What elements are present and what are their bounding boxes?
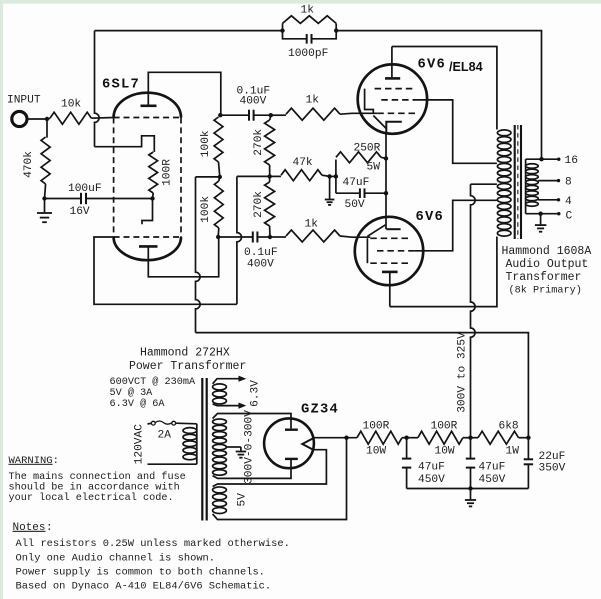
svg-text:47uF: 47uF bbox=[479, 461, 506, 473]
svg-text:100R: 100R bbox=[161, 159, 173, 186]
OPT primary winding bbox=[497, 130, 511, 236]
svg-text:10W: 10W bbox=[366, 445, 386, 457]
grid V1b (dashed) bbox=[114, 236, 181, 238]
svg-text:5W: 5W bbox=[367, 162, 381, 174]
terminal 4 bbox=[557, 198, 560, 201]
wire feedback top left bbox=[95, 30, 283, 32]
svg-text:Only one Audio channel is show: Only one Audio channel is shown. bbox=[16, 552, 216, 564]
input jack J1 bbox=[12, 111, 27, 126]
terminal C bbox=[557, 212, 560, 215]
wire B+ vertical (hops) bbox=[471, 184, 476, 438]
svg-text:6.3V @ 6A: 6.3V @ 6A bbox=[110, 398, 166, 410]
capacitor 0.1uF row2 bbox=[218, 236, 253, 238]
svg-text:(8k Primary): (8k Primary) bbox=[509, 285, 582, 297]
resistor 100R (cathode) bbox=[149, 152, 158, 193]
svg-text:1000pF: 1000pF bbox=[288, 48, 328, 60]
svg-text:400V: 400V bbox=[247, 258, 274, 270]
svg-text:16: 16 bbox=[565, 155, 578, 167]
OPT secondary winding bbox=[525, 159, 527, 214]
ground (47k node) bbox=[329, 176, 331, 198]
wire filter bottom rail bbox=[407, 488, 529, 490]
svg-text:5V: 5V bbox=[237, 493, 249, 507]
node row2 / 270k bbox=[268, 235, 272, 239]
wire divider bottom to V1b grid bbox=[94, 237, 237, 304]
grid rows bottom 6V6 (dashed) bbox=[370, 238, 414, 263]
svg-text:270k: 270k bbox=[253, 129, 265, 156]
wire HV bottom to anode 2 bbox=[213, 460, 291, 479]
node plate V1a / row1 bbox=[218, 113, 222, 117]
node filter 3 (screen B+) bbox=[526, 436, 530, 440]
resistor 6k8 1W bbox=[471, 437, 479, 439]
plate V1b bbox=[139, 245, 158, 248]
capacitor 1000pF bbox=[283, 31, 307, 39]
capacitor 47uF 50V bbox=[335, 176, 337, 193]
node filter 2 (B+) bbox=[468, 436, 472, 440]
grid rail bottom 6V6 bbox=[366, 238, 368, 263]
wire 16 ohm tap bbox=[526, 158, 559, 160]
tube GZ34 envelope bbox=[264, 418, 314, 468]
terminal 16 bbox=[557, 158, 560, 161]
svg-text:600VCT @ 230mA: 600VCT @ 230mA bbox=[110, 376, 196, 388]
svg-text:120VAC: 120VAC bbox=[133, 424, 145, 465]
tube 6V6 bottom envelope bbox=[355, 217, 423, 285]
svg-text:100k: 100k bbox=[200, 196, 212, 223]
svg-text:5V @ 3A: 5V @ 3A bbox=[110, 387, 154, 399]
wire B+ to OPT center tap bbox=[471, 183, 497, 185]
node 47uF / cathode line bbox=[384, 191, 388, 195]
svg-text:22uF: 22uF bbox=[539, 451, 566, 463]
wire 5V bottom to output node bbox=[213, 438, 347, 520]
plate bottom 6V6 bbox=[382, 271, 398, 274]
resistor 100k (plate load 2) bbox=[219, 177, 220, 181]
svg-text:2A: 2A bbox=[158, 430, 172, 442]
svg-text:1k: 1k bbox=[301, 5, 315, 17]
wire 6SL7 B+ feed horizontal bbox=[196, 333, 529, 438]
node C ground junction bbox=[538, 212, 542, 216]
svg-text:47k: 47k bbox=[293, 157, 313, 169]
svg-text:The mains connection and fuse: The mains connection and fuse bbox=[9, 471, 186, 483]
svg-text:WARNING: WARNING bbox=[9, 455, 53, 467]
svg-text:4: 4 bbox=[565, 196, 572, 208]
ground (input) bbox=[44, 199, 46, 213]
wire 6SL7 B+ feed vertical (hops) bbox=[196, 177, 201, 333]
grid rows top 6V6 (dashed) bbox=[375, 89, 419, 114]
resistor 100R second bbox=[407, 437, 418, 439]
svg-text:GZ34: GZ34 bbox=[301, 403, 339, 418]
wire HV center tap bbox=[227, 446, 241, 448]
svg-text:All resistors 0.25W unless mar: All resistors 0.25W unless marked otherw… bbox=[16, 538, 290, 550]
grid rail top 6V6 bbox=[365, 89, 374, 114]
resistor 250R 5W bbox=[335, 160, 337, 177]
plate top 6V6 bbox=[391, 47, 393, 78]
svg-text:50V: 50V bbox=[345, 199, 365, 211]
svg-text:400V: 400V bbox=[240, 95, 267, 107]
node input junction bbox=[45, 117, 49, 121]
wire plate top 6V6 to OPT bbox=[392, 47, 497, 130]
wire 47k junction to divider drop bbox=[237, 175, 270, 177]
wire 4 ohm tap bbox=[538, 199, 558, 201]
capacitor 47uF 450V second bbox=[470, 438, 472, 458]
green page border left bbox=[0, 0, 3, 599]
node 100k junction (B+ feed) bbox=[218, 175, 222, 179]
wire plate bottom 6V6 to OPT bbox=[390, 237, 497, 307]
svg-text:300V-0-300V: 300V-0-300V bbox=[244, 410, 256, 484]
suppressor tie top 6V6 bbox=[373, 116, 386, 129]
node fb left bbox=[280, 28, 284, 32]
resistor 47k bbox=[270, 175, 281, 177]
tube 6SL7 envelope bottom arc bbox=[114, 237, 181, 260]
grid V1a (dashed) bbox=[114, 117, 181, 119]
wire HV top to anode 1 bbox=[213, 414, 291, 429]
resistor 100R first bbox=[357, 431, 402, 444]
wire C tap bbox=[526, 213, 559, 215]
svg-text:1k: 1k bbox=[306, 95, 320, 107]
svg-text:470k: 470k bbox=[23, 151, 35, 178]
PT primary 120VAC winding bbox=[183, 428, 197, 460]
cathode V1a bbox=[95, 136, 155, 152]
PT HV winding 300-0-300 bbox=[213, 419, 227, 475]
wire 5V top to filament bbox=[213, 450, 327, 487]
anode 2 GZ34 bbox=[285, 458, 298, 460]
anode 1 GZ34 bbox=[290, 428, 292, 429]
wire feedback to 16ohm tap bbox=[336, 31, 541, 160]
ground (filter) bbox=[470, 489, 472, 500]
svg-text:8: 8 bbox=[565, 177, 572, 189]
capacitor 100uF bbox=[45, 198, 82, 200]
suppressor tie bottom 6V6 bbox=[367, 225, 385, 237]
wire screen top 6V6 to UL tap bbox=[419, 100, 497, 163]
node fb right bbox=[334, 28, 338, 32]
node 250R / cathode line bbox=[384, 156, 388, 160]
node output / 5V return bbox=[344, 436, 348, 440]
svg-text:C: C bbox=[566, 210, 573, 222]
svg-text:270k: 270k bbox=[253, 191, 265, 218]
tube 6SL7 dashed sides bbox=[114, 118, 181, 238]
wire plate V1b to row2 bbox=[148, 237, 218, 277]
svg-text:0.1uF: 0.1uF bbox=[244, 247, 278, 259]
svg-text:10k: 10k bbox=[61, 98, 81, 110]
node 470k/100uF junction bbox=[42, 196, 46, 200]
wire jack to input node bbox=[27, 118, 47, 120]
PT 6.3V winding bbox=[213, 384, 227, 404]
wire 6.3V top arrow bbox=[213, 379, 240, 384]
filament GZ34 bbox=[302, 438, 313, 450]
svg-text:300V to 325V: 300V to 325V bbox=[457, 332, 469, 413]
svg-text:450V: 450V bbox=[418, 474, 445, 486]
svg-text:350V: 350V bbox=[539, 462, 566, 474]
resistor 1k (grid stopper bottom 6V6) bbox=[270, 236, 286, 238]
cathode bottom 6V6 bbox=[386, 228, 400, 230]
svg-text:100uF: 100uF bbox=[68, 183, 102, 195]
node 100R/100uF junction bbox=[150, 196, 154, 200]
svg-text:Audio Output: Audio Output bbox=[506, 258, 589, 271]
svg-text:6SL7: 6SL7 bbox=[102, 78, 140, 93]
tube 6SL7 envelope top arc bbox=[114, 93, 181, 118]
wire screen bottom 6V6 to UL tap bbox=[414, 200, 497, 251]
wire 8 ohm tap bbox=[538, 180, 558, 182]
svg-text:Hammond 1608A: Hammond 1608A bbox=[502, 245, 592, 258]
plate V1a bbox=[141, 105, 157, 108]
svg-text:47uF: 47uF bbox=[343, 177, 370, 189]
wire shared cathode line bbox=[385, 134, 387, 230]
wire divider drop (hops row2) bbox=[237, 176, 242, 304]
node bottom rail ground bbox=[468, 486, 472, 490]
svg-text:should be in accordance with: should be in accordance with bbox=[9, 482, 180, 494]
svg-text:450V: 450V bbox=[479, 474, 506, 486]
fuse 2A bbox=[148, 422, 152, 425]
svg-text:Hammond 272HX: Hammond 272HX bbox=[140, 346, 230, 359]
ground (HV center tap) bbox=[240, 447, 242, 451]
terminal 8 bbox=[557, 179, 560, 182]
svg-text:100R: 100R bbox=[431, 420, 458, 432]
svg-text:Power Transformer: Power Transformer bbox=[129, 360, 246, 373]
svg-text:250R: 250R bbox=[354, 143, 381, 155]
svg-text:6V6: 6V6 bbox=[416, 210, 444, 225]
cathode V1b bbox=[142, 199, 153, 225]
wire between 47k nodes bbox=[330, 175, 336, 177]
OPT core bbox=[515, 125, 521, 239]
svg-text:47uF: 47uF bbox=[418, 461, 445, 473]
wire B+ rail to 100k junction bbox=[196, 176, 220, 178]
svg-text:1k: 1k bbox=[305, 218, 319, 230]
resistor 270k lower bbox=[269, 176, 271, 182]
svg-text:6V6: 6V6 bbox=[418, 58, 446, 73]
node plate V1b / row2 bbox=[216, 235, 220, 239]
resistor 270k upper bbox=[270, 115, 271, 120]
cathode top 6V6 bbox=[386, 122, 402, 134]
node 47k left junction bbox=[268, 174, 272, 178]
svg-text::: : bbox=[53, 455, 59, 467]
wire feedback drop left bbox=[95, 31, 100, 147]
resistor 470k bbox=[46, 119, 48, 137]
wire 6.3V bottom arrow bbox=[213, 404, 240, 406]
PT core bbox=[202, 378, 206, 521]
resistor 1k (grid stopper top 6V6) bbox=[271, 114, 286, 116]
svg-text:INPUT: INPUT bbox=[7, 95, 41, 107]
node 47k right A bbox=[327, 174, 331, 178]
svg-text:your local electrical code.: your local electrical code. bbox=[9, 492, 174, 504]
svg-text:/EL84: /EL84 bbox=[449, 60, 483, 74]
svg-text:100k: 100k bbox=[200, 130, 212, 157]
svg-text:10W: 10W bbox=[435, 445, 455, 457]
svg-text:6k8: 6k8 bbox=[499, 420, 519, 432]
svg-text:Based on Dynaco A-410 EL84/6V6: Based on Dynaco A-410 EL84/6V6 Schematic… bbox=[16, 580, 272, 592]
node 47k right B bbox=[334, 174, 338, 178]
node feedback takeoff bbox=[539, 157, 543, 161]
svg-text:16V: 16V bbox=[70, 206, 90, 218]
svg-text::: : bbox=[46, 522, 53, 534]
svg-text:6.3V: 6.3V bbox=[249, 380, 261, 407]
node filter 1 bbox=[404, 436, 408, 440]
green page border top bbox=[0, 0, 601, 4]
svg-text:1W: 1W bbox=[506, 445, 520, 457]
svg-text:Power supply is common to both: Power supply is common to both channels. bbox=[16, 567, 265, 579]
resistor 1k (feedback) bbox=[282, 23, 284, 30]
wire GZ34 output bbox=[314, 437, 357, 439]
resistor 100k (plate load 1) bbox=[214, 117, 223, 162]
capacitor 22uF 350V bbox=[527, 438, 529, 459]
capacitor 47uF 450V first bbox=[406, 438, 408, 458]
tube 6V6 top envelope bbox=[358, 64, 427, 133]
svg-text:Transformer: Transformer bbox=[506, 271, 582, 284]
resistor 10k (grid stopper) bbox=[50, 112, 91, 124]
svg-text:100R: 100R bbox=[363, 420, 390, 432]
capacitor 0.1uF row1 bbox=[220, 114, 249, 116]
ground (OPT secondary) bbox=[540, 214, 542, 225]
PT 5V winding bbox=[213, 487, 227, 514]
node row1 / 270k bbox=[269, 113, 273, 117]
svg-text:Notes: Notes bbox=[13, 522, 46, 534]
